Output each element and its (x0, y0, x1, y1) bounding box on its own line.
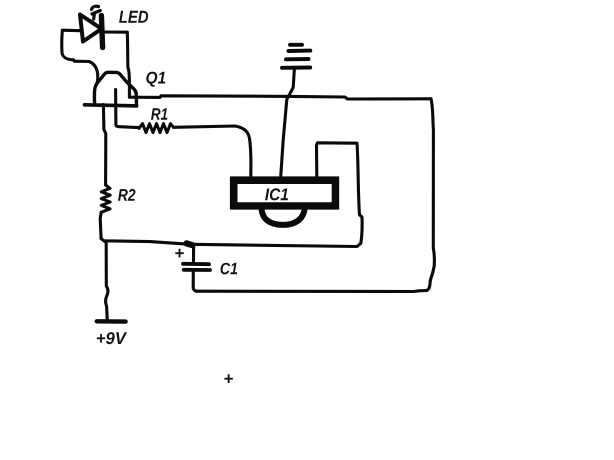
wire: LED anode to Q1 emitter (62, 30, 98, 83)
wire: junction to C1 positive node (101, 239, 188, 245)
transistor Q1 base line (85, 105, 137, 106)
wire: Q1 emitter node down to R2 (103, 105, 105, 186)
ground bars (282, 45, 310, 68)
LED D1 cathode bar (101, 16, 102, 48)
wire: top rail (129, 96, 431, 99)
resistor R2 (101, 185, 110, 212)
IC1 bottom notch (262, 209, 305, 225)
label IC1 (265, 188, 288, 200)
capacitor C1 bottom plate (184, 268, 210, 272)
wire: bottom rail (197, 291, 427, 292)
label R1 (151, 108, 167, 119)
label LED (119, 11, 148, 23)
wire: ground stem to IC1 pin 2 (281, 70, 295, 176)
plus mark (floating) (224, 374, 233, 383)
LED D1 emission arrow (92, 6, 101, 19)
transistor Q1 case (94, 72, 136, 105)
node: C1 positive junction (187, 243, 193, 245)
wire: Q1 base to R1 (116, 125, 139, 128)
wire: R1 to IC1 pin 1 (174, 126, 251, 176)
label + (C1 polarity) (175, 249, 184, 258)
LED D1 triangle (80, 15, 102, 42)
resistor R1 (139, 124, 174, 133)
label C1 (221, 263, 238, 275)
IC1 body (230, 176, 339, 209)
label R2 (118, 189, 136, 201)
capacitor C1 positive stem (192, 246, 194, 262)
transistor Q1 base lead down (114, 90, 117, 125)
capacitor C1 negative stem (193, 272, 196, 291)
label Q1 (146, 72, 165, 87)
wire: junction down to +9V terminal (104, 241, 108, 319)
label +9V (97, 332, 127, 344)
wire: R2 bottom to junction node (100, 212, 101, 238)
wire: IC1 pin 3 up and over to C1 positive (inner loop) (191, 143, 363, 247)
wire: LED cathode to top rail corner (104, 32, 129, 96)
capacitor C1 top plate (183, 262, 209, 266)
battery terminal bar +9V (97, 319, 126, 324)
wire: right rail down (427, 99, 435, 291)
